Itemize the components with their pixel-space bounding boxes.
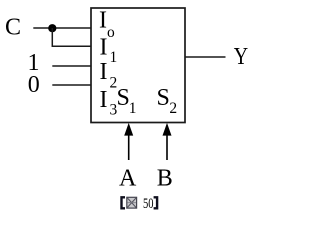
multiplexer box U1 xyxy=(91,8,185,123)
wire logic-1 input to I2 xyxy=(52,65,91,67)
caption missing-glyph box (圖) xyxy=(127,197,137,208)
svg-text:A: A xyxy=(119,166,137,192)
wire branch junction to I1 xyxy=(52,28,91,46)
svg-text:2: 2 xyxy=(169,100,177,117)
svg-text:0: 0 xyxy=(28,72,40,98)
pin I0 xyxy=(99,8,115,42)
svg-text:S: S xyxy=(157,85,170,111)
svg-text:o: o xyxy=(107,24,115,41)
svg-text:I: I xyxy=(100,87,108,113)
svg-text:Y: Y xyxy=(234,42,248,69)
svg-text:I: I xyxy=(99,8,107,34)
wire output to Y xyxy=(185,56,226,58)
arrow B to S2 xyxy=(163,123,172,160)
pin I2 xyxy=(100,59,118,92)
pin I1 xyxy=(100,35,118,67)
svg-text:C: C xyxy=(5,15,21,41)
svg-text:I: I xyxy=(100,35,108,61)
svg-text:I: I xyxy=(100,59,108,85)
svg-text:50: 50 xyxy=(143,196,154,212)
svg-text:1: 1 xyxy=(129,100,137,117)
svg-text:B: B xyxy=(157,166,173,192)
wire logic-0 input to I3 xyxy=(52,84,91,86)
caption bracket right xyxy=(154,197,158,208)
caption bracket left xyxy=(122,197,126,208)
pin S2 xyxy=(157,85,178,117)
arrow A to S1 xyxy=(124,123,133,160)
pin I3 xyxy=(100,87,118,119)
wire C input to I0 xyxy=(33,27,91,29)
pin S1 xyxy=(117,85,137,117)
node C junction xyxy=(48,24,56,32)
svg-text:1: 1 xyxy=(110,49,118,66)
